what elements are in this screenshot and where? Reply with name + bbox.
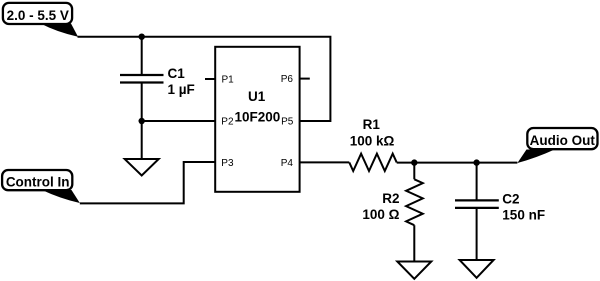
op-amp U1 body (IC 10F200) bbox=[215, 47, 299, 192]
svg-text:P5: P5 bbox=[281, 116, 294, 127]
pin stub P6 bbox=[300, 78, 310, 80]
wire P4 to R1 bbox=[300, 161, 350, 163]
svg-text:C2: C2 bbox=[502, 191, 519, 206]
wire R2 bottom bbox=[413, 225, 415, 261]
wire C1 top bbox=[141, 37, 143, 75]
ground below R2 bbox=[397, 262, 431, 279]
svg-text:U1: U1 bbox=[248, 89, 266, 104]
wire R1 to Audio Out node bbox=[397, 162, 518, 164]
svg-text:C1: C1 bbox=[168, 66, 186, 81]
svg-text:R2: R2 bbox=[382, 191, 399, 206]
pin P1 label bbox=[222, 74, 235, 85]
pin P5 label bbox=[281, 116, 294, 127]
svg-text:100 kΩ: 100 kΩ bbox=[350, 134, 395, 149]
node junction above C1 bbox=[139, 34, 145, 40]
svg-text:Control In: Control In bbox=[6, 174, 70, 189]
wire top power rail bbox=[78, 37, 331, 121]
pin P2 label bbox=[221, 116, 234, 127]
resistor R1 bbox=[349, 117, 396, 171]
svg-text:P3: P3 bbox=[221, 158, 234, 169]
svg-text:1 µF: 1 µF bbox=[168, 82, 195, 97]
svg-text:P2: P2 bbox=[221, 116, 234, 127]
net flag Audio Out bbox=[517, 128, 597, 163]
ground below C1 bbox=[125, 159, 159, 176]
pin P3 label bbox=[221, 158, 234, 169]
wire P2 bbox=[142, 120, 216, 122]
svg-text:100 Ω: 100 Ω bbox=[362, 207, 399, 222]
wire Control In to P3 bbox=[80, 162, 215, 203]
capacitor C1 bbox=[120, 66, 195, 97]
svg-text:10F200: 10F200 bbox=[235, 110, 281, 125]
wire C2 bottom bbox=[476, 208, 478, 260]
net flag 2.0 - 5.5 V bbox=[3, 3, 78, 37]
pin P4 label bbox=[281, 158, 294, 169]
resistor R2 bbox=[362, 179, 422, 225]
net flag Control In bbox=[2, 170, 80, 203]
wire R2 top bbox=[413, 163, 415, 180]
svg-text:2.0 - 5.5 V: 2.0 - 5.5 V bbox=[7, 8, 69, 23]
svg-text:P1: P1 bbox=[222, 74, 235, 85]
svg-text:P6: P6 bbox=[281, 74, 294, 85]
pin stub P1 bbox=[205, 78, 215, 80]
svg-text:150 nF: 150 nF bbox=[502, 208, 545, 223]
node junction at P2 tee bbox=[139, 118, 145, 124]
wire C1 bottom to ground bbox=[141, 83, 143, 160]
svg-text:P4: P4 bbox=[281, 158, 294, 169]
wire C2 top bbox=[476, 163, 478, 201]
ground below C2 bbox=[460, 260, 494, 278]
svg-text:Audio Out: Audio Out bbox=[530, 133, 596, 148]
node junction A (R1/R2) bbox=[411, 159, 417, 165]
svg-text:R1: R1 bbox=[363, 117, 381, 132]
capacitor C2 bbox=[455, 191, 545, 222]
pin P6 label bbox=[281, 74, 294, 85]
node junction B (C2 tap) bbox=[473, 159, 479, 165]
